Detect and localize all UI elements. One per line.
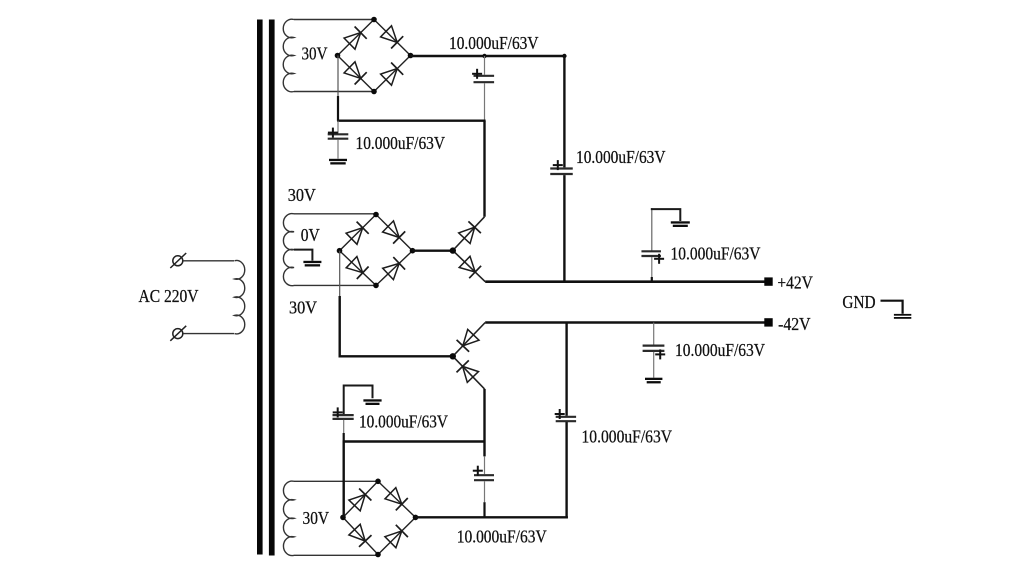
bridge BR2 node top bbox=[373, 212, 379, 218]
diode bridge bridge BR3 outline bbox=[343, 481, 416, 554]
label 30V (S2 upper) bbox=[288, 185, 316, 205]
capacitor C2 lead bottom bbox=[337, 140, 339, 159]
label C8 10.000uF/63V bbox=[582, 426, 673, 446]
ground C2 bbox=[329, 159, 347, 165]
label -42V bbox=[778, 314, 811, 334]
capacitor C3 polarity + bbox=[553, 160, 563, 170]
label 30V (S1) bbox=[302, 44, 328, 64]
AC input terminal top bbox=[170, 253, 186, 268]
diode D6 body line bbox=[453, 251, 485, 282]
wire D8 down to C6 net bbox=[483, 389, 485, 457]
capacitor C6 stub to BR3 bbox=[483, 502, 485, 518]
capacitor C8 polarity + bbox=[555, 409, 565, 419]
wire AC bottom bbox=[183, 333, 234, 335]
bridge BR2 diode lower-left bbox=[346, 257, 368, 280]
diode D5 bbox=[459, 221, 481, 243]
svg-text:30V: 30V bbox=[288, 185, 316, 205]
wire C3 to +42V rail bbox=[563, 175, 565, 283]
wire BR2 negative drop (thin) bbox=[339, 251, 341, 296]
ground C7 bbox=[363, 399, 381, 405]
svg-text:10.000uF/63V: 10.000uF/63V bbox=[576, 147, 666, 167]
bridge BR3 diode upper-right bbox=[385, 488, 408, 511]
capacitor C1 lead top bbox=[484, 56, 486, 75]
svg-text:30V: 30V bbox=[289, 298, 317, 318]
svg-text:30V: 30V bbox=[302, 44, 328, 64]
capacitor C2 plates bbox=[328, 134, 349, 138]
bridge BR3 node bottom bbox=[375, 552, 381, 558]
wire BR1 positive output bbox=[411, 55, 566, 57]
wire C1 net down to diode D5 bbox=[483, 121, 485, 217]
bridge BR1 node right bbox=[408, 53, 414, 59]
terminal -42V bbox=[764, 318, 772, 326]
bridge BR1 diode upper-right bbox=[381, 26, 404, 49]
svg-text:+42V: +42V bbox=[777, 272, 813, 292]
wire C8 riser lower bbox=[565, 422, 567, 519]
label C6 10.000uF/63V bbox=[457, 527, 547, 547]
capacitor C6 plates bbox=[474, 475, 494, 480]
bridge BR1 node bottom bbox=[371, 89, 377, 95]
svg-text:10.000uF/63V: 10.000uF/63V bbox=[356, 133, 446, 153]
bridge BR2 diode upper-left bbox=[346, 222, 369, 245]
diode bridge bridge BR2 outline bbox=[340, 215, 413, 286]
bridge BR3 node right bbox=[413, 515, 419, 521]
terminal +42V bbox=[764, 277, 772, 285]
capacitor C5 plates bbox=[643, 346, 665, 351]
diode D7 body line bbox=[453, 323, 485, 357]
label C4 10.000uF/63V bbox=[671, 244, 761, 264]
capacitor C4 lead bottom bbox=[651, 257, 653, 277]
wire BR1 left node drop (bold) bbox=[337, 96, 339, 121]
bridge BR2 diode lower-right bbox=[383, 257, 405, 280]
capacitor C1 plates bbox=[474, 76, 495, 82]
ground GND terminal bbox=[894, 314, 911, 319]
capacitor C2 lead top bbox=[337, 121, 339, 134]
wire centre tap bbox=[294, 250, 312, 261]
AC input terminal bottom bbox=[170, 326, 186, 341]
ground centre tap bbox=[303, 261, 321, 267]
bridge BR2 node left bbox=[337, 248, 343, 254]
wire BR1 negative to C1 bbox=[337, 119, 486, 121]
wire top rail down segment bbox=[563, 55, 565, 167]
node D7/D8 junction bbox=[450, 353, 456, 359]
label C5 10.000uF/63V bbox=[675, 340, 765, 360]
diode D5 body line bbox=[453, 217, 485, 251]
bridge BR3 diode upper-left bbox=[349, 489, 372, 511]
capacitor C5 lead bottom bbox=[653, 352, 655, 378]
svg-text:0V: 0V bbox=[301, 225, 320, 245]
diode D6 bbox=[459, 256, 481, 278]
label +42V bbox=[777, 272, 813, 292]
capacitor C3 plates bbox=[550, 169, 573, 175]
primary winding P1 bbox=[235, 260, 245, 333]
capacitor C4 stub to rail bbox=[651, 277, 653, 282]
label 30V (S3) bbox=[303, 508, 330, 528]
label C2 10.000uF/63V bbox=[356, 133, 446, 153]
wire C7 net horizontal bbox=[344, 440, 485, 442]
diode D7 bbox=[457, 329, 479, 351]
transformer core laminations bbox=[257, 20, 275, 556]
wire C8 riser upper bbox=[565, 323, 567, 416]
wire BR2 positive output bbox=[413, 249, 453, 251]
capacitor C7 plates bbox=[333, 415, 354, 419]
bridge BR3 node top bbox=[375, 479, 381, 485]
node capacitor C1 tap bbox=[482, 54, 486, 58]
svg-text:10.000uF/63V: 10.000uF/63V bbox=[449, 33, 539, 53]
capacitor C6 lead top bbox=[484, 456, 486, 474]
capacitor C7 stub to wire bbox=[343, 433, 345, 443]
bridge BR1 node top bbox=[371, 17, 377, 23]
ground C4 bbox=[671, 221, 690, 227]
diode bridge bridge BR1 outline bbox=[338, 20, 411, 92]
capacitor C4 plates bbox=[641, 251, 661, 256]
bridge BR3 diode lower-left bbox=[349, 524, 372, 547]
wire BR1 left node drop (thin) bbox=[337, 56, 339, 97]
label 0V (S2 centre tap) bbox=[301, 225, 320, 245]
secondary winding S3 (bottom 30V) bbox=[283, 481, 378, 556]
bridge BR2 diode upper-right bbox=[383, 221, 406, 244]
capacitor C5 stub to rail bbox=[653, 323, 655, 345]
wire C4 ground arm bbox=[651, 208, 681, 251]
wire AC top bbox=[183, 260, 234, 262]
capacitor C4 polarity + bbox=[654, 254, 664, 264]
svg-text:10.000uF/63V: 10.000uF/63V bbox=[582, 426, 673, 446]
bridge BR2 node right bbox=[410, 248, 416, 254]
svg-text:GND: GND bbox=[842, 292, 875, 312]
label C3 10.000uF/63V bbox=[576, 147, 666, 167]
label 30V (S2 lower) bbox=[289, 298, 317, 318]
bridge BR1 node left bbox=[335, 53, 341, 59]
diode D8 body line bbox=[453, 356, 485, 389]
wire +42V rail bbox=[485, 280, 768, 283]
wire GND bbox=[881, 301, 903, 314]
node D5/D6 junction bbox=[450, 247, 456, 253]
label AC 220V bbox=[139, 286, 199, 306]
capacitor C7 ground arm bbox=[344, 386, 373, 415]
wire BR3 left riser bbox=[343, 440, 345, 517]
wire BR3 positive output bbox=[416, 516, 568, 518]
capacitor C7 polarity + bbox=[333, 407, 343, 417]
label GND bbox=[842, 292, 875, 312]
label C1 10.000uF/63V bbox=[449, 33, 539, 53]
capacitor C5 polarity + bbox=[655, 349, 665, 359]
capacitor C1 polarity + bbox=[472, 69, 482, 79]
wire -42V rail bbox=[485, 321, 768, 324]
bridge BR3 node left bbox=[340, 515, 346, 521]
capacitor C1 lead bottom bbox=[484, 83, 486, 121]
svg-text:10.000uF/63V: 10.000uF/63V bbox=[671, 244, 761, 264]
wire BR2 negative to junction bbox=[339, 355, 453, 357]
capacitor C6 lead bottom bbox=[484, 481, 486, 502]
capacitor C8 plates bbox=[556, 417, 576, 421]
bridge BR2 node bottom bbox=[373, 283, 379, 289]
secondary winding S1 (top 30V) bbox=[283, 19, 374, 92]
bridge BR1 diode lower-right bbox=[381, 63, 404, 86]
svg-text:10.000uF/63V: 10.000uF/63V bbox=[457, 527, 547, 547]
label C7 10.000uF/63V bbox=[359, 412, 448, 432]
svg-text:10.000uF/63V: 10.000uF/63V bbox=[359, 412, 448, 432]
secondary winding S2 (middle 30V-0V-30V) bbox=[283, 214, 376, 286]
svg-text:10.000uF/63V: 10.000uF/63V bbox=[675, 340, 765, 360]
node top-right corner bbox=[562, 54, 566, 58]
bridge BR3 diode lower-right bbox=[385, 525, 408, 548]
svg-text:AC 220V: AC 220V bbox=[139, 286, 199, 306]
bridge BR1 diode upper-left bbox=[344, 27, 367, 50]
capacitor C6 polarity + bbox=[473, 466, 483, 476]
wire BR2 negative drop (bold) bbox=[339, 296, 341, 358]
bridge BR1 diode lower-left bbox=[344, 62, 367, 85]
svg-text:-42V: -42V bbox=[778, 314, 811, 334]
capacitor C2 polarity + bbox=[328, 128, 338, 138]
capacitor C7 lead bottom bbox=[343, 420, 345, 433]
ground C5 bbox=[645, 378, 662, 384]
diode D8 bbox=[457, 360, 479, 382]
svg-text:30V: 30V bbox=[303, 508, 330, 528]
